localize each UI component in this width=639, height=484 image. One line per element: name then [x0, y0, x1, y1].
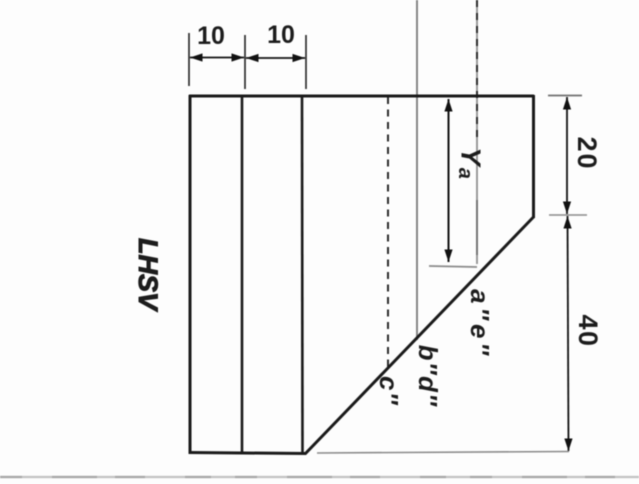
- dimension line 10 left segment: [190, 57, 244, 59]
- svg-text:a″e″: a″e″: [465, 289, 495, 359]
- Ya bottom extension line: [429, 266, 477, 267]
- dimension line 40: [568, 216, 569, 451]
- extension line right of 10 dim: [305, 35, 307, 89]
- svg-text:LHSV: LHSV: [133, 238, 163, 312]
- faint scan line at bottom: [0, 476, 639, 478]
- outline bottom edge: [189, 453, 306, 454]
- extension line middle of 10 dim: [244, 35, 246, 89]
- extension line bottom of 40 dim: [317, 452, 569, 454]
- svg-text:10: 10: [197, 22, 225, 50]
- dimension line 20: [566, 97, 568, 214]
- projection line from top view (left, solid gray): [416, 0, 418, 340]
- Ya dimension line: [448, 99, 450, 262]
- dimension line 10 right segment: [246, 57, 305, 59]
- projection line from top view (right, dark dashed over gray): [476, 0, 478, 264]
- hidden dashed line inside view: [387, 97, 389, 368]
- extension line top of 20 dim: [548, 95, 582, 97]
- outline left edge: [189, 95, 192, 454]
- extension line between 20 and 40: [549, 214, 587, 216]
- outline top edge: [189, 95, 534, 98]
- svg-text:20: 20: [572, 136, 602, 170]
- svg-text:10: 10: [267, 21, 295, 49]
- extension line left of 10 dim: [188, 33, 190, 86]
- inner vertical line 2: [301, 96, 304, 454]
- svg-text:40: 40: [573, 314, 603, 347]
- outline right edge: [532, 95, 535, 218]
- svg-text:c″: c″: [374, 376, 404, 406]
- inner vertical line 1: [241, 96, 244, 453]
- outline diagonal edge: [305, 217, 534, 454]
- faint scan line darker patches: [0, 476, 639, 478]
- svg-text:b″d″: b″d″: [413, 345, 443, 408]
